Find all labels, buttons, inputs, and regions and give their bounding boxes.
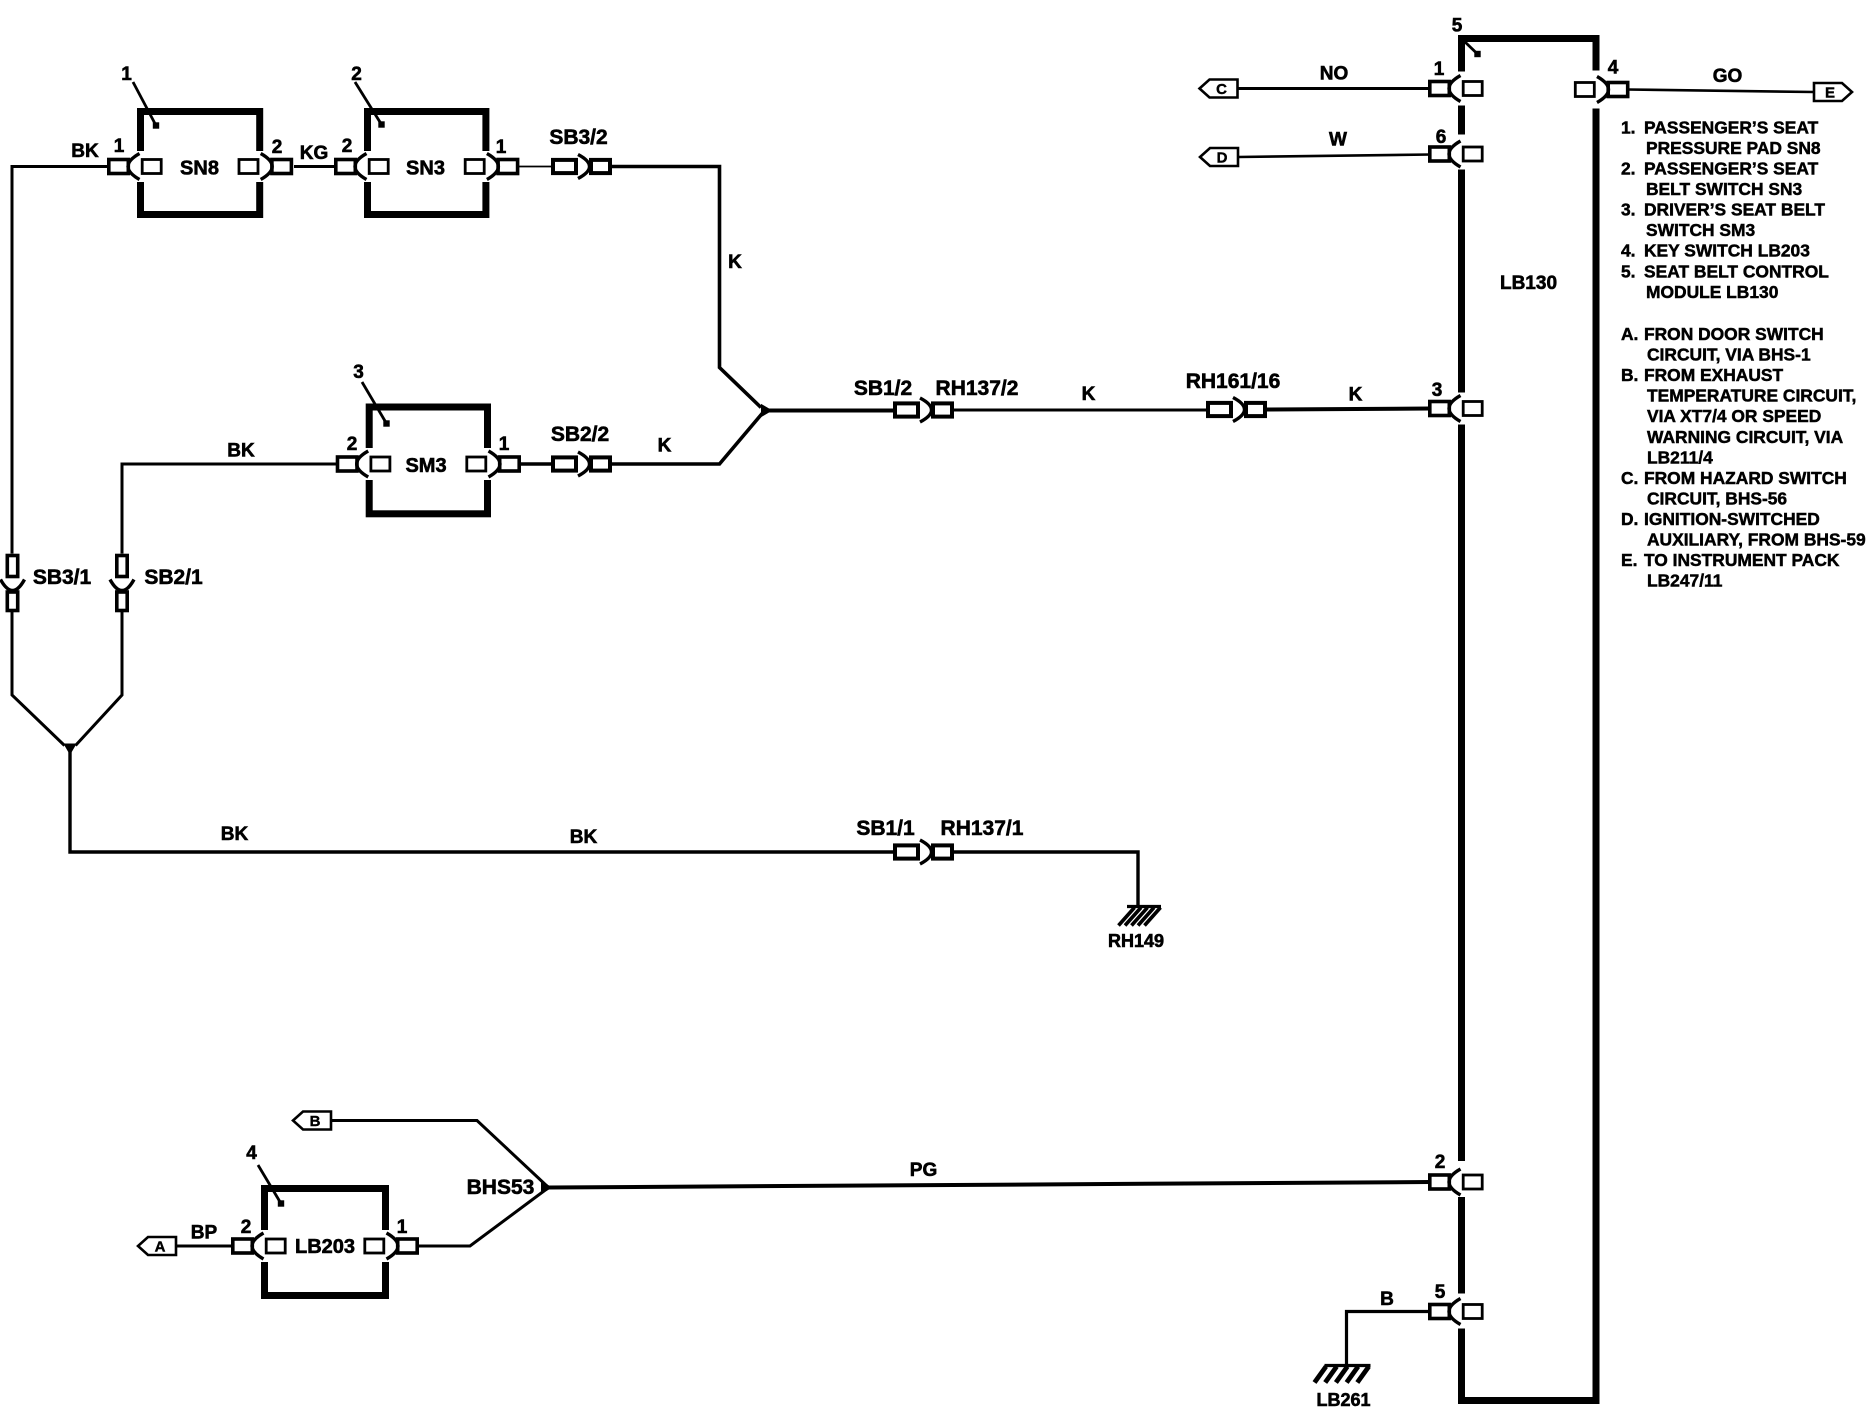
svg-text:BK: BK bbox=[221, 824, 249, 845]
svg-text:D.: D. bbox=[1621, 509, 1638, 529]
svg-text:SB1/1: SB1/1 bbox=[856, 817, 915, 840]
svg-text:SN8: SN8 bbox=[180, 158, 219, 180]
svg-text:D: D bbox=[1217, 150, 1228, 167]
svg-text:1: 1 bbox=[397, 1217, 408, 1238]
SM3 pin 1 connector bbox=[500, 457, 520, 471]
svg-text:TO INSTRUMENT PACK: TO INSTRUMENT PACK bbox=[1644, 550, 1840, 570]
svg-text:KG: KG bbox=[300, 143, 329, 164]
svg-text:B: B bbox=[310, 1113, 321, 1130]
svg-text:K: K bbox=[1082, 384, 1096, 405]
svg-text:1: 1 bbox=[121, 64, 132, 85]
svg-text:1: 1 bbox=[1434, 59, 1445, 80]
svg-text:5.: 5. bbox=[1621, 261, 1636, 281]
svg-text:4.: 4. bbox=[1621, 241, 1636, 261]
flag A front door switch circuit bbox=[138, 1237, 176, 1255]
wire B from LB130 pin5 left then down to ground LB261 bbox=[1347, 1312, 1431, 1368]
svg-text:A: A bbox=[155, 1239, 166, 1256]
LB130 pin 6 bbox=[1430, 147, 1450, 161]
svg-text:E: E bbox=[1825, 85, 1835, 102]
svg-text:RH137/1: RH137/1 bbox=[941, 817, 1024, 840]
LB130 pin 3 bbox=[1430, 402, 1450, 416]
wire K splice to SB1/2 bbox=[769, 409, 896, 413]
svg-text:B.: B. bbox=[1621, 365, 1638, 385]
svg-text:LB261: LB261 bbox=[1316, 1390, 1370, 1408]
svg-text:LB203: LB203 bbox=[295, 1236, 355, 1258]
svg-text:CIRCUIT, BHS-56: CIRCUIT, BHS-56 bbox=[1647, 488, 1787, 508]
LB130 pin 4 bbox=[1608, 83, 1628, 97]
svg-text:5: 5 bbox=[1452, 16, 1463, 37]
svg-text:BHS53: BHS53 bbox=[467, 1176, 535, 1199]
svg-text:BELT SWITCH SN3: BELT SWITCH SN3 bbox=[1646, 179, 1803, 199]
wire NO from flag C to LB130 pin1 bbox=[1238, 87, 1432, 90]
driver seat belt switch SM3 box bbox=[369, 407, 487, 514]
svg-text:PASSENGER’S SEAT: PASSENGER’S SEAT bbox=[1644, 117, 1819, 137]
svg-text:SN3: SN3 bbox=[406, 158, 445, 180]
svg-text:SM3: SM3 bbox=[405, 455, 446, 477]
svg-text:WARNING CIRCUIT, VIA: WARNING CIRCUIT, VIA bbox=[1647, 427, 1844, 447]
inline connector SB3/1 bbox=[7, 556, 17, 577]
seat belt control module LB130 outline bbox=[1462, 39, 1597, 1401]
wire K from SB3/2 right, down, to splice bbox=[611, 167, 761, 408]
LB203 pin 1 connector bbox=[398, 1239, 418, 1253]
svg-text:BP: BP bbox=[191, 1223, 218, 1244]
svg-text:PRESSURE PAD SN8: PRESSURE PAD SN8 bbox=[1646, 138, 1821, 158]
svg-text:RH161/16: RH161/16 bbox=[1186, 370, 1281, 393]
svg-text:4: 4 bbox=[1608, 58, 1619, 79]
inline connector SB3/2 bbox=[553, 160, 576, 173]
svg-text:PASSENGER’S SEAT: PASSENGER’S SEAT bbox=[1644, 159, 1819, 179]
svg-text:6: 6 bbox=[1436, 127, 1447, 148]
SN3 pin 2 connector bbox=[336, 160, 356, 174]
SN3 pin 1 connector bbox=[498, 160, 517, 174]
svg-text:IGNITION-SWITCHED: IGNITION-SWITCHED bbox=[1644, 509, 1820, 529]
svg-text:W: W bbox=[1329, 130, 1347, 151]
LB203 pin 2 connector bbox=[233, 1239, 253, 1253]
svg-text:SB3/1: SB3/1 bbox=[33, 566, 92, 589]
svg-text:FROM EXHAUST: FROM EXHAUST bbox=[1644, 365, 1784, 385]
wire GO from LB130 pin4 to flag E bbox=[1627, 90, 1814, 93]
flag B from exhaust temperature circuit bbox=[293, 1112, 331, 1130]
wire BP from flag A to LB203 pin2 bbox=[176, 1245, 232, 1248]
svg-text:E.: E. bbox=[1621, 550, 1637, 570]
LB130 pin 5 bbox=[1430, 1305, 1450, 1319]
svg-text:DRIVER’S SEAT BELT: DRIVER’S SEAT BELT bbox=[1644, 200, 1825, 220]
svg-text:2: 2 bbox=[342, 136, 353, 157]
svg-text:4: 4 bbox=[246, 1143, 257, 1164]
svg-text:B: B bbox=[1380, 1289, 1394, 1310]
wire K SB1/2 to RH161/16 bbox=[953, 409, 1209, 412]
svg-text:BK: BK bbox=[71, 141, 99, 162]
wire K RH161/16 to LB130 pin3 bbox=[1264, 409, 1430, 410]
svg-text:K: K bbox=[728, 252, 742, 273]
wire BK from SN8 pin1 left then down left margin bbox=[12, 167, 108, 554]
svg-text:1.: 1. bbox=[1621, 117, 1636, 137]
svg-text:SEAT BELT CONTROL: SEAT BELT CONTROL bbox=[1644, 261, 1829, 281]
wire SM3 pin1 to SB2/2 bbox=[520, 462, 556, 465]
svg-text:RH137/2: RH137/2 bbox=[936, 377, 1019, 400]
wire KG between SN8 pin2 and SN3 pin2 bbox=[294, 165, 335, 168]
svg-text:TEMPERATURE CIRCUIT,: TEMPERATURE CIRCUIT, bbox=[1647, 386, 1856, 406]
svg-text:AUXILIARY, FROM BHS-59: AUXILIARY, FROM BHS-59 bbox=[1647, 530, 1866, 550]
flag D ignition-switched auxiliary bbox=[1200, 148, 1238, 166]
svg-text:CIRCUIT, VIA BHS-1: CIRCUIT, VIA BHS-1 bbox=[1647, 345, 1811, 365]
svg-text:LB247/11: LB247/11 bbox=[1647, 571, 1723, 591]
flag C from hazard switch circuit bbox=[1200, 80, 1238, 98]
svg-text:GO: GO bbox=[1713, 66, 1743, 87]
wire from flag B to splice BHS53 bbox=[331, 1121, 548, 1188]
svg-text:1: 1 bbox=[499, 434, 510, 455]
svg-text:C.: C. bbox=[1621, 468, 1638, 488]
svg-text:SB1/2: SB1/2 bbox=[854, 377, 912, 400]
SN8 pin 2 connector bbox=[272, 160, 292, 174]
svg-text:2: 2 bbox=[272, 137, 283, 158]
svg-text:2: 2 bbox=[241, 1217, 252, 1238]
svg-text:3: 3 bbox=[353, 362, 364, 383]
wire below SB2/1 to Y-splice bbox=[76, 610, 123, 746]
svg-text:NO: NO bbox=[1320, 64, 1349, 85]
svg-text:BK: BK bbox=[570, 827, 598, 848]
ground LB261 bbox=[1325, 1364, 1371, 1367]
svg-text:LB130: LB130 bbox=[1500, 273, 1557, 294]
svg-text:C: C bbox=[1216, 81, 1227, 98]
splice BHS53 bbox=[542, 1182, 552, 1194]
flag E to instrument pack bbox=[1814, 83, 1852, 101]
svg-text:FROM HAZARD SWITCH: FROM HAZARD SWITCH bbox=[1644, 468, 1847, 488]
ground RH149 bbox=[1127, 905, 1161, 908]
svg-text:LB211/4: LB211/4 bbox=[1647, 447, 1713, 467]
svg-text:VIA XT7/4 OR SPEED: VIA XT7/4 OR SPEED bbox=[1647, 406, 1821, 426]
svg-text:A.: A. bbox=[1621, 324, 1638, 344]
svg-text:SB2/2: SB2/2 bbox=[551, 423, 609, 446]
SM3 pin 2 connector bbox=[338, 457, 358, 471]
key switch LB203 box bbox=[265, 1189, 386, 1296]
inline connector SB2/2 bbox=[553, 457, 576, 470]
passenger seat pressure pad SN8 box bbox=[141, 112, 260, 215]
SN8 pin 1 connector bbox=[109, 160, 129, 174]
wire SN3 pin1 to SB3/2 bbox=[519, 166, 554, 168]
wire left margin below SB3/1 to Y-splice bbox=[12, 610, 65, 746]
wire W from flag D to LB130 pin6 bbox=[1238, 155, 1431, 158]
svg-text:SWITCH SM3: SWITCH SM3 bbox=[1646, 220, 1756, 240]
inline connector RH161/16 bbox=[1208, 403, 1231, 416]
svg-text:1: 1 bbox=[496, 137, 507, 158]
wire K from SB2/2 right, diagonal up to splice bbox=[612, 413, 763, 465]
svg-text:3.: 3. bbox=[1621, 200, 1636, 220]
svg-text:SB2/1: SB2/1 bbox=[144, 566, 203, 589]
svg-text:1: 1 bbox=[114, 136, 125, 157]
svg-text:BK: BK bbox=[227, 441, 255, 462]
inline connector SB2/1 bbox=[117, 556, 127, 577]
inline connector pair SB1/1 - RH137/1 bbox=[895, 845, 918, 858]
splice junction of BK wires bbox=[64, 744, 76, 754]
svg-text:2: 2 bbox=[347, 434, 358, 455]
wire BK from Y-splice down then right to SB1/1 bbox=[70, 752, 896, 852]
svg-text:2.: 2. bbox=[1621, 159, 1636, 179]
svg-text:3: 3 bbox=[1432, 380, 1443, 401]
passenger seat belt switch SN3 box bbox=[368, 112, 486, 215]
svg-text:PG: PG bbox=[910, 1160, 937, 1181]
wire PG from splice BHS53 to LB130 pin2 bbox=[549, 1182, 1430, 1188]
splice junction of K wires bbox=[762, 405, 772, 417]
svg-text:RH149: RH149 bbox=[1108, 931, 1164, 951]
wire BK from SM3 pin2 left then down to SB2/1 bbox=[122, 464, 336, 554]
svg-text:K: K bbox=[1349, 385, 1363, 406]
wire from LB203 pin1 to splice BHS53 bbox=[416, 1188, 548, 1246]
svg-text:FRON DOOR SWITCH: FRON DOOR SWITCH bbox=[1644, 324, 1824, 344]
LB130 pin 1 bbox=[1430, 82, 1450, 96]
svg-text:MODULE LB130: MODULE LB130 bbox=[1646, 282, 1778, 302]
wire BK RH137/1 to ground RH149 bbox=[953, 852, 1138, 907]
svg-text:SB3/2: SB3/2 bbox=[549, 126, 607, 149]
svg-text:5: 5 bbox=[1435, 1282, 1446, 1303]
svg-text:KEY SWITCH LB203: KEY SWITCH LB203 bbox=[1644, 241, 1810, 261]
svg-text:2: 2 bbox=[1435, 1152, 1446, 1173]
LB130 pin 2 bbox=[1430, 1175, 1450, 1189]
inline connector pair SB1/2 - RH137/2 bbox=[895, 403, 918, 416]
svg-text:K: K bbox=[658, 436, 672, 457]
